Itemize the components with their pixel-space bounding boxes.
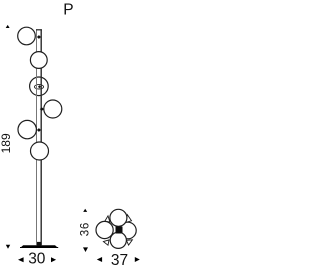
svg-text:P: P	[63, 1, 73, 18]
svg-text:30: 30	[28, 250, 46, 267]
pole left edge	[36, 29, 38, 245]
pole top cap	[36, 29, 42, 31]
svg-text:37: 37	[111, 252, 128, 269]
top view: hub square	[116, 227, 123, 234]
top view: gusset NW	[105, 216, 110, 222]
sphere S4 connector	[40, 107, 44, 110]
top view: sphere south	[110, 232, 126, 248]
sphere S5 connector	[37, 128, 41, 132]
dimension 30 arrow right	[51, 257, 56, 262]
top view: dimension 36 arrow down	[83, 247, 88, 252]
sphere S1 connector	[37, 35, 41, 39]
sphere S1	[18, 27, 36, 45]
dimension 189 arrow down	[6, 245, 10, 249]
pole socket	[37, 242, 41, 246]
base	[20, 245, 58, 248]
sphere S4	[44, 100, 62, 118]
top view: sphere east	[120, 222, 137, 239]
sphere S3 inner ring	[34, 85, 43, 89]
top view: gusset NE	[126, 215, 132, 223]
top view: gusset SE	[126, 240, 132, 245]
top view: gusset SW	[103, 240, 109, 245]
dimension 37 arrow left	[97, 257, 102, 262]
dimension 37 arrow right	[135, 257, 140, 262]
top view: sphere north	[110, 209, 127, 226]
sphere S2	[30, 52, 47, 69]
svg-text:36: 36	[80, 222, 92, 236]
sphere S3 (ring sphere)	[30, 77, 49, 96]
svg-text:189: 189	[0, 133, 13, 153]
top view: dimension 36 arrow up	[83, 209, 87, 212]
dimension 30 arrow left	[18, 257, 24, 262]
sphere S6	[31, 142, 49, 160]
sphere S3 hub	[38, 85, 41, 88]
pole right edge	[40, 29, 42, 245]
sphere S5	[18, 120, 36, 138]
dimension 189 arrow up	[6, 25, 10, 28]
top view: sphere west	[96, 221, 113, 238]
